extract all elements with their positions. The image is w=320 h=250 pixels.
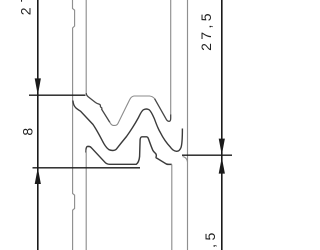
svg-text:27,5: 27,5 — [198, 10, 214, 51]
svg-text:8,5: 8,5 — [202, 229, 218, 250]
svg-text:27,5: 27,5 — [18, 0, 34, 15]
svg-text:8: 8 — [19, 124, 35, 135]
